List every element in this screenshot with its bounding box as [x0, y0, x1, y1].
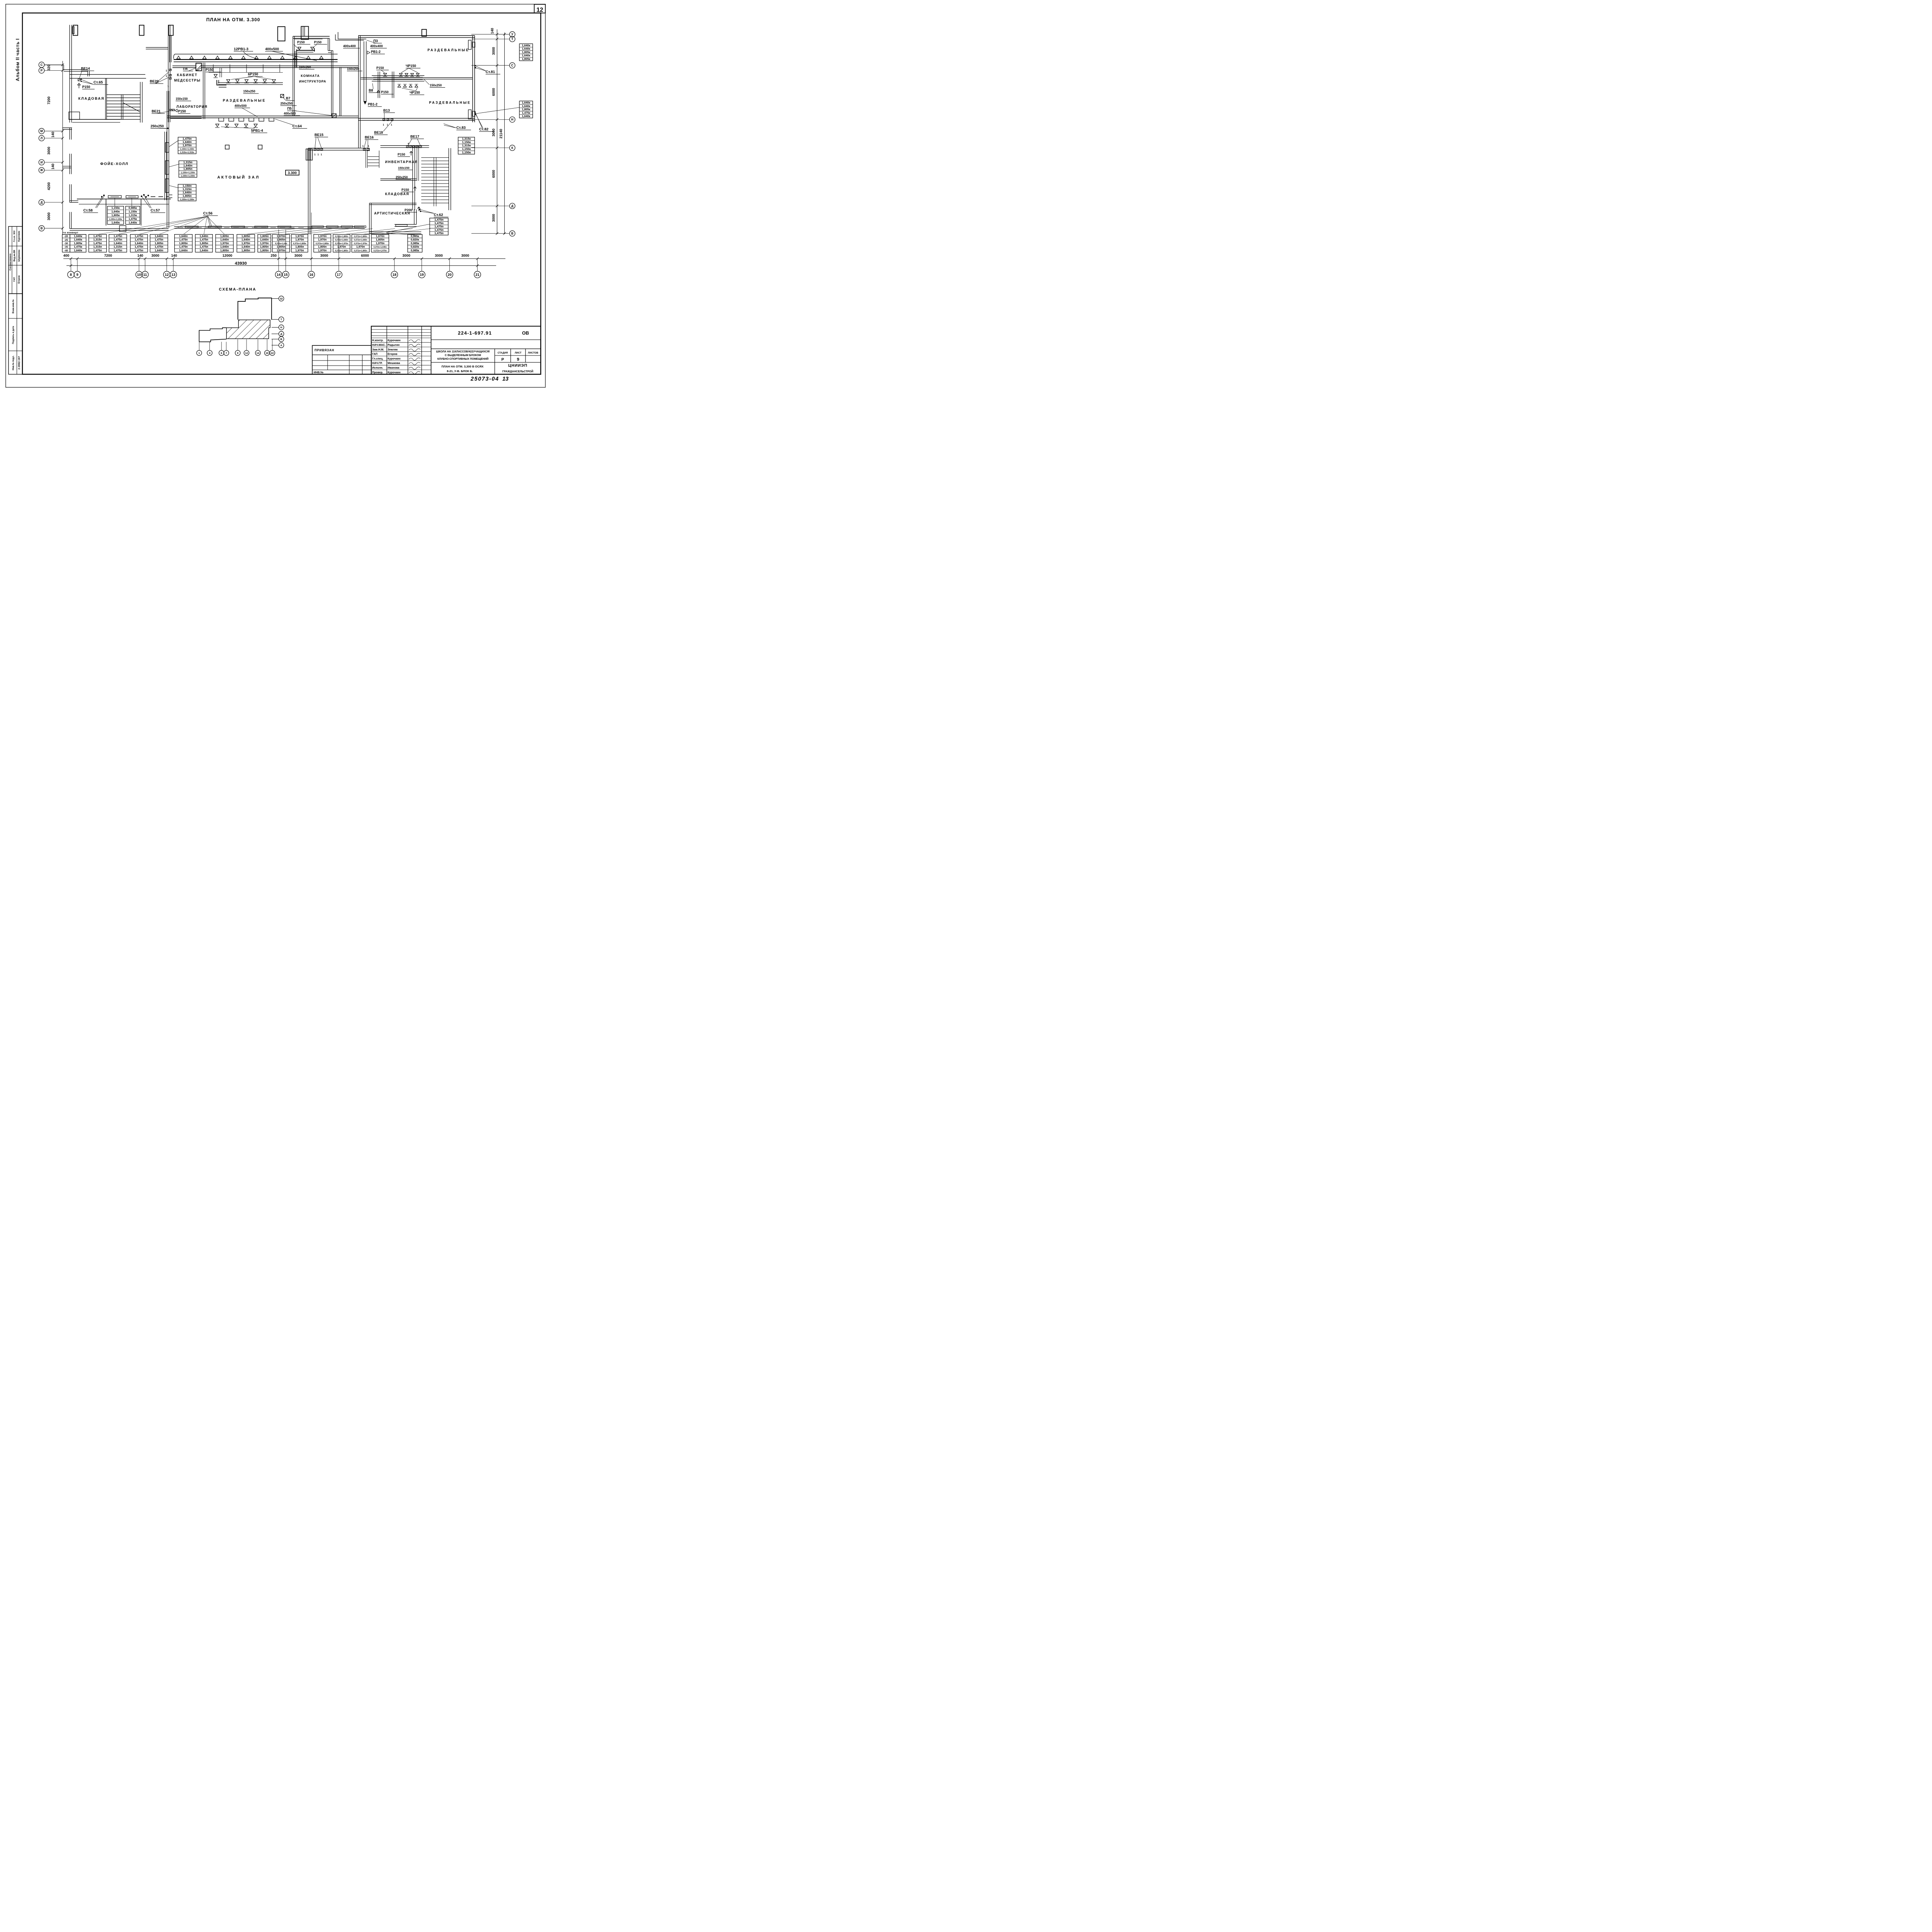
6P150 duct corner: [215, 80, 219, 85]
leader lines to bottom tables: [98, 216, 207, 235]
РВ1-2 bottom: [364, 101, 366, 104]
bottom table 3: [109, 235, 127, 252]
svg-text:1: 1: [166, 70, 167, 72]
svg-text:Р150: Р150: [178, 109, 186, 113]
svg-text:3000: 3000: [461, 253, 469, 257]
svg-text:К: К: [511, 146, 513, 150]
svg-text:-20: -20: [64, 235, 68, 238]
svg-text:6000: 6000: [492, 170, 495, 178]
svg-text:1,970п: 1,970п: [295, 235, 304, 238]
svg-text:Курочкин: Курочкин: [388, 338, 400, 342]
bottom table 16: [371, 235, 389, 252]
bottom table 10: [258, 235, 271, 252]
svg-text:НАЧ.МАС.: НАЧ.МАС.: [372, 343, 386, 347]
VE16 grilles: [363, 149, 366, 151]
block1: storeroom left outer wall: [68, 25, 71, 122]
wall between lab and changing rooms: [202, 63, 204, 119]
P4 unit: [196, 63, 202, 71]
svg-text:1,475п: 1,475п: [182, 137, 192, 140]
svg-text:Ж: Ж: [40, 168, 43, 172]
5РВ1-4 nablas: [216, 124, 219, 127]
svg-text:1,475п: 1,475п: [134, 235, 143, 238]
bottom table 1: [70, 235, 86, 252]
bottom table 17: [408, 235, 422, 252]
svg-text:1,150к: 1,150к: [462, 140, 471, 144]
block4 stairs: [421, 156, 449, 158]
svg-text:1,805к: 1,805к: [74, 241, 82, 245]
svg-text:1,640п: 1,640п: [241, 238, 250, 241]
right dim chain lines: [496, 29, 498, 234]
svg-text:22: 22: [271, 352, 274, 355]
duct 150x250 right of instructor room: [338, 67, 341, 116]
svg-text:12: 12: [165, 273, 168, 277]
P5 corner unit: [332, 114, 336, 117]
svg-text:Курочкин: Курочкин: [18, 231, 20, 241]
svg-text:250: 250: [271, 253, 277, 257]
svg-text:Р: Р: [41, 69, 43, 72]
svg-text:3000: 3000: [320, 253, 328, 257]
svg-text:4200: 4200: [47, 182, 51, 190]
hall left wall: [163, 132, 166, 200]
svg-text:400: 400: [63, 253, 69, 257]
bottom table 6: [175, 235, 192, 252]
svg-text:МЕДСЕСТРЫ: МЕДСЕСТРЫ: [174, 78, 201, 82]
svg-text:1: 1: [166, 75, 167, 78]
svg-text:150х150: 150х150: [398, 166, 410, 170]
svg-text:0,372п+1,805п: 0,372п+1,805п: [316, 243, 329, 245]
svg-text:Гл.спец.: Гл.спец.: [372, 357, 383, 360]
svg-text:Р150: Р150: [398, 152, 405, 156]
axis stems up into plan 14-17: [278, 230, 279, 259]
svg-text:РВ1-2: РВ1-2: [371, 50, 381, 54]
VE21 grilles: [170, 109, 172, 111]
svg-text:ЧР150: ЧР150: [410, 90, 420, 94]
svg-text:Ст.64: Ст.64: [293, 124, 302, 129]
svg-text:43930: 43930: [235, 261, 247, 266]
wall between hall and block4: [357, 122, 360, 148]
svg-text:Подпись и дата: Подпись и дата: [12, 326, 15, 344]
svg-text:1,640к: 1,640к: [522, 101, 531, 104]
svg-text:3000: 3000: [492, 214, 495, 222]
svg-text:ЦНИИЭП: ЦНИИЭП: [508, 364, 527, 368]
svg-text:150х250: 150х250: [243, 90, 255, 93]
mid duct assembly: [372, 75, 424, 77]
title block outer: [371, 326, 541, 374]
svg-text:1,150п+1,150п: 1,150п+1,150п: [181, 172, 195, 174]
svg-text:СТАДИЯ: СТАДИЯ: [498, 352, 508, 354]
bottom table 12: [291, 235, 308, 252]
svg-text:1,475п: 1,475п: [200, 238, 208, 241]
svg-text:0,372п+1,805п: 0,372п+1,805п: [354, 236, 367, 238]
svg-text:7200: 7200: [104, 253, 112, 257]
svg-text:Ст.56: Ст.56: [203, 211, 213, 216]
svg-text:1,970п: 1,970п: [376, 235, 384, 238]
svg-text:В: В: [511, 232, 514, 235]
svg-text:1,150п: 1,150п: [182, 184, 192, 187]
bottom table 13: [314, 235, 331, 252]
svg-text:М: М: [40, 129, 43, 133]
block1: stairwell treads: [107, 94, 140, 96]
stage duct row: [174, 226, 365, 228]
svg-text:Альбом II часть I: Альбом II часть I: [15, 38, 20, 81]
right block middle wall: [361, 77, 473, 79]
svg-text:ВЕ21: ВЕ21: [151, 109, 160, 113]
svg-text:9: 9: [517, 357, 519, 362]
svg-text:1,640к: 1,640к: [522, 47, 531, 51]
svg-text:17: 17: [337, 273, 341, 277]
svg-text:Ст.82: Ст.82: [479, 128, 488, 132]
table D: [107, 206, 124, 224]
svg-text:1,150п+1,150п: 1,150п+1,150п: [180, 148, 194, 150]
svg-text:6Р150: 6Р150: [248, 72, 259, 76]
svg-text:1,640п: 1,640п: [134, 241, 143, 245]
svg-text:1,315к: 1,315к: [129, 213, 137, 217]
svg-text:1,640к: 1,640к: [74, 248, 82, 252]
svg-text:1,805к: 1,805к: [111, 213, 120, 217]
D-axis convector row: [151, 196, 168, 198]
svg-text:1,315к: 1,315к: [462, 137, 471, 141]
svg-text:1,805п: 1,805п: [220, 235, 229, 238]
svg-text:КЛАДОВАЯ: КЛАДОВАЯ: [78, 97, 105, 100]
svg-text:400х500: 400х500: [235, 104, 247, 107]
svg-text:1,805п: 1,805п: [260, 248, 269, 252]
hall unit leaders: [169, 141, 178, 147]
svg-text:150х250: 150х250: [347, 67, 359, 71]
title block signature rows: [371, 328, 431, 330]
svg-text:9: 9: [237, 352, 238, 355]
svg-text:1,640п: 1,640п: [220, 238, 229, 241]
bottom table 5: [150, 235, 168, 252]
svg-text:2-3992-197: 2-3992-197: [18, 356, 21, 369]
svg-text:1,805п: 1,805п: [179, 241, 187, 245]
bottom table 14: [333, 235, 350, 252]
artist room duct corner: [395, 223, 417, 226]
svg-text:ЛИСТОВ: ЛИСТОВ: [528, 352, 538, 354]
left stamp: inventory box: [9, 294, 22, 374]
svg-text:ЛИСТ: ЛИСТ: [515, 352, 522, 354]
svg-text:1,640п: 1,640п: [155, 235, 163, 238]
svg-text:12000: 12000: [223, 253, 233, 257]
svg-text:1,640п: 1,640п: [182, 191, 192, 194]
svg-text:1,475п: 1,475п: [134, 238, 143, 241]
bottom table 8: [216, 235, 233, 252]
axis D wall corner: [68, 184, 71, 202]
lower triangles: [398, 85, 401, 87]
svg-text:1,475п: 1,475п: [93, 241, 102, 245]
svg-text:1,970п: 1,970п: [241, 241, 250, 245]
svg-text:1,970п: 1,970п: [295, 248, 304, 252]
svg-text:1,640п: 1,640п: [200, 235, 208, 238]
page number box 12: [534, 4, 546, 13]
svg-text:16: 16: [310, 273, 313, 277]
svg-text:400х400: 400х400: [370, 44, 383, 48]
svg-text:8: 8: [70, 273, 72, 277]
svg-text:13: 13: [171, 273, 175, 277]
svg-text:0,372п+1,970п: 0,372п+1,970п: [354, 243, 367, 245]
svg-text:Согласовано: Согласовано: [9, 253, 12, 270]
value table C: [178, 184, 196, 201]
stage front wall: [70, 228, 168, 230]
svg-text:Н.контр.: Н.контр.: [372, 338, 383, 342]
svg-text:0,372п+1,970п: 0,372п+1,970п: [374, 250, 387, 252]
svg-text:3000: 3000: [294, 253, 302, 257]
svg-text:Инв.№ подл.: Инв.№ подл.: [12, 355, 15, 370]
schema number circles: [197, 350, 202, 355]
svg-text:Ст.62: Ст.62: [434, 213, 443, 217]
instructor room top wall: [293, 35, 330, 38]
svg-text:0,372п+1,805п: 0,372п+1,805п: [354, 250, 367, 252]
svg-text:-40: -40: [64, 249, 68, 252]
6P150 nablas: [226, 80, 230, 82]
block1: stairwell left wall: [104, 78, 107, 119]
svg-text:140: 140: [490, 28, 494, 34]
svg-text:1,970п: 1,970п: [260, 241, 269, 245]
duct 250x250 vertical: [166, 91, 168, 228]
table I: [430, 218, 448, 235]
svg-text:Н: Н: [281, 327, 282, 329]
svg-text:0,372п+1,805п: 0,372п+1,805п: [335, 250, 348, 252]
small stair near VE16: [365, 151, 367, 168]
bottom dim chain line 2 (43930): [66, 265, 496, 267]
D corner duct piece: [169, 194, 172, 196]
svg-text:С: С: [511, 64, 514, 67]
svg-text:14: 14: [277, 273, 281, 277]
svg-text:Иванова: Иванова: [388, 366, 400, 369]
svg-text:0,372п+1,640п: 0,372п+1,640п: [335, 239, 348, 241]
svg-text:400х500: 400х500: [265, 47, 279, 51]
corridor wall between block1 and block2: [146, 46, 168, 49]
svg-text:С: С: [41, 63, 43, 66]
svg-text:1,640к: 1,640к: [74, 235, 82, 238]
svg-text:224-1-697.91: 224-1-697.91: [458, 330, 492, 336]
svg-text:19: 19: [420, 273, 423, 277]
svg-text:6000: 6000: [492, 88, 495, 96]
svg-text:21140: 21140: [499, 129, 503, 138]
svg-text:15: 15: [284, 273, 287, 277]
svg-text:ПЛАН НА ОТМ. 3.300: ПЛАН НА ОТМ. 3.300: [206, 17, 260, 22]
svg-text:Р150: Р150: [314, 40, 322, 44]
svg-text:Гл.сп. ЭО/: Гл.сп. ЭО/: [14, 230, 16, 242]
svg-text:Ст.58: Ст.58: [83, 209, 93, 213]
svg-text:Зам.Н.М.: Зам.Н.М.: [372, 348, 384, 351]
svg-text:1,150к: 1,150к: [462, 151, 471, 154]
svg-text:9: 9: [77, 273, 78, 277]
svg-text:1,805п: 1,805п: [155, 241, 163, 245]
svg-text:Л: Л: [41, 136, 43, 140]
svg-text:0,372п+1,640п: 0,372п+1,640п: [374, 246, 387, 248]
svg-text:В: В: [281, 338, 282, 341]
svg-text:1,475п: 1,475п: [93, 235, 102, 238]
svg-text:7200: 7200: [47, 97, 51, 104]
right axis circles: [510, 32, 515, 37]
svg-text:0,985к: 0,985к: [411, 235, 419, 238]
bottom table 2: [89, 235, 107, 252]
svg-text:Егоров: Егоров: [18, 275, 20, 283]
table G: [519, 101, 532, 118]
svg-text:ИНВЕНТАРНАЯ: ИНВЕНТАРНАЯ: [385, 160, 418, 164]
bottom table row-label column: [62, 235, 70, 252]
svg-text:1,805п: 1,805п: [182, 194, 192, 197]
svg-text:Курочкин: Курочкин: [388, 371, 400, 374]
svg-text:0,372п+1,64п: 0,372п+1,64п: [275, 243, 287, 245]
svg-text:1,475п: 1,475п: [114, 235, 122, 238]
svg-text:1,805п: 1,805п: [318, 245, 327, 248]
svg-text:1: 1: [199, 352, 200, 355]
svg-text:1,805п: 1,805п: [376, 238, 384, 241]
svg-text:1,805п: 1,805п: [260, 235, 269, 238]
svg-text:Н: Н: [511, 118, 514, 121]
block1: stairwell right wall: [139, 82, 141, 122]
svg-text:1,970п: 1,970п: [318, 238, 327, 241]
VE18 grilles: [383, 119, 385, 121]
bottom table 9: [237, 235, 255, 252]
svg-text:Земляк: Земляк: [388, 348, 398, 351]
block1: wall L to axis P: [63, 65, 65, 70]
lower-right block: top wall A with VE15/VE16: [308, 147, 369, 149]
svg-text:1,475п: 1,475п: [179, 245, 187, 248]
svg-text:140: 140: [51, 132, 55, 138]
3.300 level box: [286, 170, 299, 175]
svg-text:1,970п: 1,970п: [277, 248, 285, 252]
svg-text:14: 14: [257, 352, 260, 355]
bottom dim chain line 1: [63, 258, 505, 260]
storeroom bottom wall: [369, 202, 417, 204]
svg-text:0,372п+1,805п: 0,372п+1,805п: [293, 243, 306, 245]
svg-text:25073-04: 25073-04: [470, 376, 499, 382]
svg-text:150х150: 150х150: [176, 97, 188, 100]
hall wall duct units: [165, 143, 169, 152]
svg-text:21: 21: [475, 273, 479, 277]
svg-text:3000: 3000: [492, 47, 495, 55]
block4 right wall: [447, 148, 450, 210]
svg-text:1,475п: 1,475п: [114, 248, 122, 252]
svg-text:1,640п: 1,640п: [220, 245, 229, 248]
left dim chain: [62, 61, 64, 234]
svg-text:140: 140: [51, 163, 55, 169]
svg-text:РВ1-2: РВ1-2: [368, 102, 378, 106]
svg-text:ИНВ.№: ИНВ.№: [314, 371, 324, 374]
svg-text:1,315п: 1,315п: [183, 160, 192, 164]
svg-text:1,970п: 1,970п: [376, 241, 384, 245]
axis I/Zh wall corner: [68, 154, 71, 174]
svg-text:Р: Р: [502, 358, 504, 362]
privyazan box: [312, 345, 371, 374]
svg-text:0,985к: 0,985к: [411, 248, 419, 252]
svg-text:1,640п: 1,640п: [155, 248, 163, 252]
svg-text:Ш: Ш: [280, 298, 283, 300]
svg-text:1,805п: 1,805п: [220, 248, 229, 252]
svg-text:1,640п: 1,640п: [241, 245, 250, 248]
axis V wall corner: [68, 212, 71, 229]
svg-text:КАБИНЕТ: КАБИНЕТ: [177, 73, 197, 77]
svg-text:Вед.ин.ВК: Вед.ин.ВК: [14, 250, 16, 261]
svg-text:1,640п: 1,640п: [260, 238, 269, 241]
P3 duct top run: [334, 34, 337, 40]
svg-text:ПРИВЯЗАН: ПРИВЯЗАН: [315, 349, 334, 352]
instructor room top pier stub: [302, 26, 304, 36]
svg-text:1,640к: 1,640к: [111, 210, 120, 213]
svg-text:АРТИСТИЧЕСКАЯ: АРТИСТИЧЕСКАЯ: [374, 211, 410, 215]
svg-text:Провер.: Провер.: [372, 371, 383, 374]
svg-text:1,475п: 1,475п: [179, 238, 187, 241]
svg-text:1,640п: 1,640п: [182, 140, 192, 144]
svg-text:0,372п+1,640п: 0,372п+1,640п: [354, 239, 367, 241]
top wall piers: [73, 25, 78, 35]
table E: [126, 206, 140, 224]
svg-text:Ст.81: Ст.81: [486, 70, 495, 74]
svg-text:1,805п: 1,805п: [260, 245, 269, 248]
svg-text:ВЕ14: ВЕ14: [81, 66, 90, 70]
svg-text:250х250: 250х250: [281, 102, 293, 105]
value table B: [179, 161, 197, 177]
svg-text:ГАП: ГАП: [14, 277, 16, 282]
svg-text:12: 12: [536, 7, 543, 13]
svg-text:6: 6: [221, 352, 222, 355]
P4 supply duct 12РВ1-3: [175, 53, 338, 55]
svg-text:-30: -30: [64, 242, 68, 245]
block1: block bottom wall: [69, 118, 121, 121]
bottom axis circles: [68, 271, 74, 278]
svg-text:П3: П3: [373, 39, 378, 43]
svg-text:ОВ: ОВ: [522, 330, 529, 336]
svg-text:-35: -35: [64, 246, 68, 248]
svg-text:С ВЫДЕЛЕННЫМ БЛОКОМ: С ВЫДЕЛЕННЫМ БЛОКОМ: [445, 354, 481, 357]
svg-text:150х250: 150х250: [430, 84, 442, 87]
svg-text:В8: В8: [369, 88, 373, 92]
svg-text:1,475п: 1,475п: [134, 248, 143, 252]
svg-text:КОМНАТА: КОМНАТА: [301, 74, 320, 78]
svg-text:1,475п: 1,475п: [93, 248, 102, 252]
svg-text:10: 10: [137, 273, 141, 277]
svg-text:Исполн.: Исполн.: [372, 366, 383, 369]
B7 unit: [281, 94, 284, 97]
svg-text:12РВ1-3: 12РВ1-3: [234, 47, 248, 51]
svg-text:4: 4: [209, 352, 211, 355]
svg-text:1,970п: 1,970п: [318, 248, 327, 252]
svg-text:1,150п+1,150п: 1,150п+1,150п: [181, 175, 195, 177]
svg-text:12: 12: [245, 352, 248, 355]
svg-text:ВЕ15: ВЕ15: [315, 133, 323, 137]
svg-text:1,805п: 1,805п: [277, 245, 285, 248]
svg-text:В: В: [41, 227, 43, 230]
svg-text:РАЗДЕВАЛЬНЫЕ: РАЗДЕВАЛЬНЫЕ: [427, 48, 469, 52]
svg-text:1: 1: [167, 85, 169, 88]
block4 left wall + shaft: [307, 148, 310, 235]
svg-text:1,475к: 1,475к: [74, 245, 82, 248]
svg-text:1,150к: 1,150к: [462, 147, 471, 151]
svg-text:Р150: Р150: [206, 68, 214, 72]
block1: storeroom north wall: [70, 73, 145, 76]
svg-text:400х400: 400х400: [343, 44, 356, 48]
block1: radiator at left wall: [72, 27, 74, 34]
svg-text:0,372п+1,805п: 0,372п+1,805п: [335, 236, 348, 238]
svg-text:ЛАБОРАТОРИЯ: ЛАБОРАТОРИЯ: [177, 105, 207, 109]
svg-text:1,475п: 1,475п: [134, 245, 143, 248]
svg-text:1,970п: 1,970п: [182, 144, 192, 147]
svg-text:КЛАДОВАЯ: КЛАДОВАЯ: [385, 192, 410, 196]
svg-text:11: 11: [143, 273, 147, 277]
schema upper block outline: [238, 298, 272, 320]
schema left block outline: [199, 328, 226, 342]
svg-text:АКТОВЫЙ ЗАЛ: АКТОВЫЙ ЗАЛ: [217, 175, 260, 180]
svg-text:ПЛАН НА ОТМ. 3,300 В ОСЯХ: ПЛАН НА ОТМ. 3,300 В ОСЯХ: [442, 365, 484, 368]
svg-text:ВЕ17: ВЕ17: [410, 134, 419, 138]
title block signature columns: [386, 326, 388, 374]
svg-text:1,640п: 1,640п: [114, 241, 122, 245]
VE15 grilles: [314, 149, 316, 151]
svg-text:А: А: [281, 344, 282, 347]
stage side pier: [119, 226, 126, 232]
